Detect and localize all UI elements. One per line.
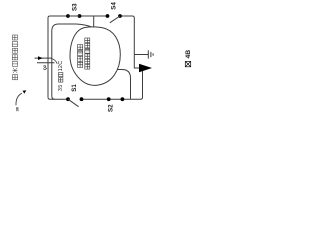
- node S3 right contact: [78, 14, 82, 18]
- input arrowhead on feed line 1: [38, 56, 43, 60]
- node S1 right contact: [80, 97, 84, 101]
- ground bar 2: [150, 52, 152, 57]
- wire: hook from junction toward label 35/12C: [52, 59, 57, 64]
- svg-text:S3: S3: [72, 3, 79, 11]
- wire: feed line 1 from controller: [35, 57, 52, 59]
- node S2 left contact: [107, 97, 111, 101]
- switch S4 open lever: [110, 16, 120, 23]
- blob text right column (6 fake kanji): [85, 38, 90, 69]
- svg-text:4B: 4B: [185, 50, 192, 59]
- output arrow: [139, 64, 152, 72]
- wire: bottom edge left stub from outer corner: [48, 97, 68, 99]
- curved leader arrow for reference 30: [16, 93, 22, 105]
- svg-text:S1: S1: [71, 84, 78, 92]
- svg-text:12C: 12C: [58, 61, 64, 72]
- wire: inner loop left vertical with top corner: [52, 24, 59, 99]
- leader arrowhead: [23, 90, 27, 93]
- left label: from radio controller (7 fake kanji): [12, 35, 17, 80]
- wire: outer box left vertical + top edge left segment: [48, 16, 108, 97]
- circuit block blob (rectifier/smoothing): [70, 27, 120, 86]
- svg-text:Q2: Q2: [42, 64, 47, 70]
- node S3 left contact: [66, 14, 70, 18]
- wire: vertical from top edge into blob: [93, 16, 95, 27]
- wire: blob right output to inner lower right vertical: [117, 70, 131, 100]
- label kanji oyobi 1: [59, 78, 63, 82]
- wire: closed switch S3 bridge: [68, 15, 80, 17]
- node S1 left contact: [66, 97, 70, 101]
- svg-text:S2: S2: [107, 104, 114, 112]
- ground bar 1: [147, 50, 149, 58]
- ground bar 3: [152, 53, 154, 55]
- node S4 left contact: [106, 14, 110, 18]
- svg-text:30: 30: [14, 106, 19, 111]
- wire: top edge right segment + right upper vertical + output stub: [120, 16, 141, 68]
- wire: feed line 2 from controller: [37, 62, 55, 64]
- ground symbol stem: [134, 54, 148, 56]
- switch S1 open lever: [68, 99, 79, 107]
- label kana bi: [59, 73, 63, 77]
- wire: inner loop top edge merging into circuit blob: [59, 24, 92, 27]
- node S2 right contact: [121, 97, 125, 101]
- wire: bottom edge main + lower right vertical up to output line: [81, 68, 143, 99]
- svg-text:35: 35: [58, 84, 64, 91]
- svg-text:S4: S4: [111, 2, 118, 10]
- blob text left column (4 fake kanji): [78, 45, 83, 68]
- figure label kanji zu (boxed X): [185, 61, 190, 66]
- node S4 right contact: [118, 14, 122, 18]
